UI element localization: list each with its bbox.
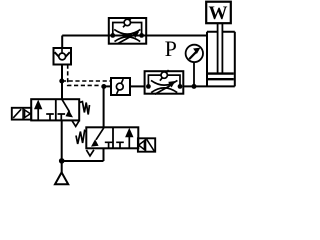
left position: flow arrow up <box>37 106 39 120</box>
spring (return, left side) <box>76 131 86 144</box>
valve DCV1 (3/2 solenoid valve, spring return) <box>12 99 90 126</box>
right position: diagonal arrow to exhaust <box>62 99 70 111</box>
right position: blocked port T <box>58 114 66 120</box>
wire: between FC2 and CV2 <box>130 85 145 87</box>
svg-text:P: P <box>165 36 177 61</box>
solenoid actuator <box>12 108 31 120</box>
wire: from CV1 bottom down to valve DCV1 top port <box>61 64 63 99</box>
wire: cylinder bottom line (cap-side) <box>183 85 207 87</box>
wire: from CV2 to junction <box>104 85 111 87</box>
right position: blocked port T <box>116 142 124 148</box>
wire: down to pressure source <box>61 161 63 173</box>
pilot line (dashed) from CV1 bottom to junction on DCV2 branch <box>68 65 101 86</box>
left position: blocked port T <box>105 142 113 148</box>
right position: flow arrow up <box>128 135 130 148</box>
node: gauge tap junction on cylinder bottom line <box>192 84 197 89</box>
wire: vertical from top corner down into check valve CV1 <box>61 36 63 50</box>
pressure source (triangle) <box>55 172 68 184</box>
flow control valve FC1 (one-way flow control, top) <box>109 18 146 44</box>
wire: DCV1 bottom port down to source line <box>61 120 63 161</box>
spring (return) <box>79 102 89 115</box>
flow control valve FC2 (one-way flow control, middle) <box>145 70 184 94</box>
node: pilot tap junction on CV1-DCV1 line <box>59 79 64 84</box>
pressure gauge P <box>186 45 203 87</box>
svg-text:W: W <box>209 3 228 24</box>
wire: top line from corner to cylinder rod-side port <box>62 35 207 37</box>
left position: blocked port T <box>46 114 54 120</box>
wire: down from junction to DCV2 top port <box>103 86 105 127</box>
node: source junction <box>59 158 65 164</box>
pilot line (dashed) from junction to pilot-operated check valve CV2 <box>62 80 111 82</box>
check valve CV2 (pilot-operated, horizontal flow) <box>111 78 130 95</box>
exhaust port (open) below right position <box>72 121 79 127</box>
node: junction of DCV2 branch / CV2 inlet / pilot line <box>101 84 106 89</box>
check valve CV1 (in box, vertical flow) <box>54 48 72 65</box>
load W box on cylinder rod <box>206 2 231 24</box>
wire: source line across to DCV2 branch <box>62 160 104 162</box>
valve DCV2 (3/2 solenoid valve, spring return, mirrored) <box>76 127 155 156</box>
solenoid actuator (right side) <box>138 138 155 151</box>
left position: diagonal arrow to exhaust <box>96 128 104 140</box>
wire: up to DCV2 bottom port <box>103 148 105 161</box>
exhaust port (open) below left position <box>86 150 94 156</box>
cylinder (vertical, single rod) <box>207 23 235 86</box>
